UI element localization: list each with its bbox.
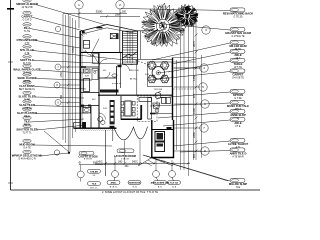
tub fixture marks [93, 69, 98, 72]
svg-text:R·L: R·L [84, 50, 89, 54]
dark dash on roofline [96, 27, 102, 29]
corner hatch top-left room [82, 32, 88, 37]
svg-text:OPTION: OPTION [233, 93, 243, 97]
svg-text:1450: 1450 [192, 75, 196, 81]
leader diagonal lower right short [146, 156, 173, 166]
leader line from callout R3 [152, 43, 230, 60]
dark bar below cabinet column [110, 126, 115, 128]
wall y105 left wing [81, 105, 99, 107]
right callout R1: RE30 MATCHING BACK [223, 8, 253, 18]
svg-text:STILER: STILER [90, 171, 98, 173]
roof eave top-left sloped [80, 25, 138, 32]
deck edge dashed y89 [173, 88, 196, 90]
left callout L3: PE,A [23, 23, 31, 33]
stair rails [126, 32, 128, 64]
wall left inner face [81, 34, 83, 127]
left callout L15: MUD ROOM [19, 139, 35, 149]
grid bubble right 3 [202, 26, 210, 34]
bottom callout STILER [88, 169, 101, 177]
svg-text:ALTRE TALROT: ALTRE TALROT [228, 142, 249, 146]
grid bubble top B [116, 1, 124, 9]
kitchen round fixture 2 [155, 109, 159, 113]
leader line from callout R4 [172, 52, 230, 64]
vertical line below plan x156 [155, 159, 157, 171]
svg-text:B TL TL: B TL TL [90, 187, 98, 189]
grid bubble right 6 [201, 100, 209, 108]
drawer unit dark stack [82, 122, 86, 128]
door arc hall y78 [104, 72, 110, 78]
porch step lines [145, 160, 155, 166]
dark wall segment y113.5 [150, 113, 156, 115]
right callout R12: ANNY TILE D [230, 148, 247, 158]
laundry door gap mark [167, 127, 172, 129]
leader line from callout L6 [33, 61, 133, 65]
vanity cabinet with basin [83, 107, 91, 113]
dark counter bar y90 [100, 90, 119, 93]
svg-text:2. SOME LAYOUT A LAYOUT OF TIL: 2. SOME LAYOUT A LAYOUT OF TILE T TL R T… [102, 191, 158, 194]
left keynote bubble c [54, 82, 60, 88]
wall top of bath block [81, 52, 123, 54]
svg-text:SLAT PLASTER: SLAT PLASTER [17, 111, 37, 115]
stipple below bottom wall [81, 130, 116, 131]
leader line from callout R1 [121, 9, 230, 11]
top dimension line [63, 13, 127, 15]
table leader + text below [158, 72, 170, 73]
svg-text:2875: 2875 [192, 41, 196, 47]
wall bath mid y67 [81, 66, 99, 68]
border tick lower-left [8, 182, 13, 184]
leader line from callout L12 [36, 112, 88, 115]
svg-text:4E T: 4E T [236, 58, 241, 60]
svg-text:1450: 1450 [60, 72, 63, 78]
callout pill CALFRT 20 SGM [79, 151, 98, 160]
left callout L16: WPWLP GECLOTHS ML [12, 150, 43, 160]
svg-text:1200: 1200 [192, 108, 196, 114]
right grid horizontal extension lines [174, 67, 201, 69]
svg-text:B TR GT: B TR GT [84, 159, 93, 161]
hanging curtain curves [114, 127, 148, 140]
wall x120.5 vertical [120, 53, 122, 88]
sheet bottom border [11, 189, 261, 191]
keynote circle bottom x172 [169, 171, 176, 178]
border tick top-left [7, 8, 14, 10]
leader line from callout L5 [33, 51, 126, 61]
bottom callout TILE [88, 182, 101, 190]
svg-text:WALL PAPER GLAZE: WALL PAPER GLAZE [13, 67, 40, 71]
deck outline right wing [173, 58, 201, 69]
svg-text:B LE TL: B LE TL [110, 186, 118, 188]
grid bubble right 4 [200, 64, 208, 72]
svg-text:W10 160: W10 160 [130, 70, 140, 72]
svg-text:800: 800 [192, 153, 196, 158]
porch diagonal [138, 158, 152, 167]
kitchen basin fixture [153, 103, 160, 109]
vertical line below plan x172 [171, 160, 173, 171]
svg-text:ANNY TILE D: ANNY TILE D [230, 152, 247, 156]
svg-text:950: 950 [60, 94, 63, 99]
svg-text:OTM ANTIHOME: OTM ANTIHOME [17, 38, 38, 42]
svg-text:TB 1200: TB 1200 [154, 89, 163, 91]
extra leader to junction [44, 131, 69, 152]
leader line from callout L13 [30, 119, 84, 122]
svg-text:WPWLP GECLOTHS ML: WPWLP GECLOTHS ML [12, 153, 43, 157]
marked X-box fixture [110, 34, 118, 39]
roof eave second line [80, 28, 136, 35]
bottom callout ANEL [107, 181, 120, 189]
kitchen sink circle [155, 93, 161, 99]
leader line from callout R2 [142, 22, 230, 30]
door header dark mark [118, 65, 122, 67]
svg-text:2450: 2450 [192, 132, 196, 138]
svg-text:G 1TW E TE: G 1TW E TE [232, 36, 245, 38]
kitchen counter right [148, 98, 152, 120]
left callout L12: SLAT PLASTER [17, 108, 37, 118]
keynote circle bottom x115 [112, 171, 119, 178]
left callout L4: OTM ANTIHOME [17, 35, 38, 45]
dashed diagonal below stairs [125, 56, 150, 66]
svg-text:GRASSY MAI HACM: GRASSY MAI HACM [225, 31, 252, 35]
leader line from callout L3 [30, 29, 80, 39]
grid bubble right 8 [201, 147, 209, 155]
svg-text:ANNE ELDP: ANNE ELDP [230, 113, 246, 117]
left callout L9: FLAT PAINT [19, 81, 36, 91]
stair break line [123, 52, 138, 59]
svg-text:MUD ROOM: MUD ROOM [19, 142, 35, 146]
bath sink oval [85, 70, 89, 72]
leader line from callout L1 [36, 5, 106, 26]
svg-text:RE30 MATCHING BACK: RE30 MATCHING BACK [223, 12, 253, 16]
room right wall x119.5 [119, 28, 121, 53]
svg-text:A TE: A TE [25, 52, 30, 55]
bottom dim line main [95, 162, 190, 164]
door arc wc [99, 113, 106, 120]
right callout R2: GRASSY MAI HACM [225, 27, 252, 37]
round table [152, 67, 164, 79]
wall y119 below table room [121, 118, 142, 120]
junction dot bottom of extension pair [68, 152, 70, 154]
svg-text:TL B: TL B [132, 186, 137, 188]
svg-text:B-R: B-R [85, 76, 89, 78]
vertical line below plan x140 [139, 140, 141, 164]
leader line from callout R10 [163, 120, 230, 126]
tall cabinet dark column [110, 100, 115, 124]
svg-text:TL TE: TL TE [24, 31, 31, 33]
right callout R6: CARPET [230, 69, 245, 79]
extension line from bubble A [78, 9, 80, 28]
top dimension tick 2 [119, 12, 122, 15]
wall hall bottom y78 [99, 77, 117, 79]
wall x121 table room left [120, 96, 122, 120]
svg-text:250: 250 [115, 13, 120, 16]
dark wall segment on bath wall [81, 66, 86, 68]
svg-text:CARPET: CARPET [232, 73, 243, 77]
svg-text:FT E: FT E [236, 126, 241, 128]
wall bath/hall vertical x99 [98, 53, 100, 128]
wall bottom of left wing [74, 127, 117, 129]
svg-text:1HD: 1HD [118, 162, 123, 164]
wall x91 vertical short [90, 106, 92, 128]
small ellipse fixture hall [112, 74, 117, 77]
leader line from callout L7 [39, 70, 83, 73]
bath closet tall rect [84, 79, 90, 92]
wall right of stairs x140.5 [140, 31, 142, 59]
svg-text:MILLRE SLMP: MILLRE SLMP [229, 182, 247, 186]
svg-text:MTL CLAD: MTL CLAD [20, 48, 34, 52]
wall right top x163 [162, 31, 164, 45]
dining left boundary line [136, 60, 138, 96]
door arc hall upper [99, 59, 107, 67]
svg-text:SOFT TILE: SOFT TILE [20, 58, 34, 62]
svg-text:3500: 3500 [96, 10, 103, 14]
wall wc y92.5 [81, 92, 99, 94]
svg-text:W T-TE: W T-TE [234, 67, 242, 69]
svg-text:MUNU FUN TALE: MUNU FUN TALE [227, 104, 249, 108]
svg-text:SMURF ALMGER: SMURF ALMGER [16, 2, 38, 6]
washer dark stack [155, 132, 165, 152]
svg-text:ANEL: ANEL [111, 182, 118, 185]
border tick mid-left [8, 61, 13, 63]
extension line cluster left of plan [62, 14, 64, 140]
long leader bottom right [143, 155, 228, 181]
svg-text:TILE: TILE [92, 184, 97, 186]
right vertical dimension ticks [195, 34, 198, 37]
vertical line below plan x124.5 [124, 141, 126, 164]
svg-text:24DC: 24DC [132, 162, 138, 164]
grid bubble top A [75, 1, 83, 9]
svg-text:G TE 3D: G TE 3D [234, 16, 243, 18]
leader line from callout R12 [180, 151, 230, 153]
bottom callout TLE GA [168, 181, 181, 189]
svg-text:A TE WA R: A TE WA R [232, 155, 244, 158]
svg-text:FLAT PAINT: FLAT PAINT [19, 84, 35, 88]
keynote circle bottom x80.8 [77, 171, 84, 178]
left keynote connector lines [61, 66, 80, 68]
toilet circles mid room [98, 117, 103, 122]
left callout L13: TILE [23, 116, 31, 126]
svg-text:SLAB TILER: SLAB TILER [19, 103, 35, 107]
door swing upper-left room [90, 39, 99, 56]
vertical below cabinet [112, 128, 114, 141]
svg-text:12 TE 2TR: 12 TE 2TR [21, 7, 32, 9]
bottom callout ANTILAYERE GTA [151, 181, 170, 189]
door jambs dark y105 [81, 105, 84, 107]
svg-text:G A-TE: G A-TE [23, 146, 31, 149]
svg-text:HASHIGHE: HASHIGHE [129, 182, 141, 185]
right callout R11: ALTRE TALROT [228, 138, 249, 148]
kitchen counter top [139, 98, 152, 102]
svg-text:G C-R D: G C-R D [23, 19, 32, 21]
wall x116.5 vertical [116, 66, 118, 95]
left callout L10: SLATE TILER [18, 91, 35, 101]
leader line from callout L11 [34, 106, 86, 108]
dark wall bar x141 kitchen [140, 105, 142, 120]
wall dining right x172.5 [172, 58, 174, 121]
svg-text:ANTILAYERE GTA: ANTILAYERE GTA [151, 182, 170, 185]
leader line from callout R8 [150, 103, 230, 106]
round table rug square [148, 62, 173, 87]
svg-text:TL B: TL B [172, 186, 177, 188]
svg-text:500: 500 [122, 11, 127, 14]
svg-text:1HXC: 1HXC [96, 162, 102, 164]
extension line from bubble B [119, 9, 121, 31]
svg-text:2 TR GT: 2 TR GT [121, 159, 130, 161]
svg-text:PE,A: PE,A [24, 26, 30, 30]
vertical line below plan x115 [114, 156, 116, 171]
svg-text:TILE: TILE [24, 119, 30, 123]
left keynote bubble e [54, 150, 59, 155]
wall bath mid y80 [81, 79, 92, 81]
leader line from callout L15 [33, 145, 112, 146]
staircase block [123, 31, 173, 95]
right callout R9: ANNE ELDP [230, 109, 246, 119]
connector circle to pill lines bottom [80, 178, 82, 182]
appliance rects right of kitchen [162, 97, 166, 103]
right callout R7: OPTION [230, 89, 245, 99]
bath sink counter [84, 69, 91, 73]
svg-text:TLE GA: TLE GA [170, 182, 178, 185]
left callout L11: SLAB TILER [19, 100, 35, 110]
left keynote bubble a [55, 26, 60, 31]
leader line from callout R7 [158, 92, 230, 98]
svg-text:2150: 2150 [72, 47, 75, 53]
wall top right section [137, 30, 163, 32]
leader line from callout L10 [35, 97, 84, 98]
laundry room walls [152, 120, 174, 158]
leader line from callout L2 [31, 17, 84, 31]
left cluster ticks [67, 66, 69, 68]
svg-text:ARLE: ARLE [234, 121, 242, 125]
dining top interior line [138, 59, 173, 61]
tree T2 small [175, 4, 198, 28]
svg-text:TARLE: TARLE [234, 62, 243, 66]
sheet left border [10, 0, 12, 190]
right callout R10: ARLE [230, 117, 245, 127]
grid bubble right 7 [200, 124, 208, 132]
rect table chairs [121, 101, 124, 105]
dashed short line hall [112, 83, 121, 85]
leader line from callout R11 [173, 141, 230, 146]
svg-text:G T SE: G T SE [234, 98, 242, 100]
tree T1 large [141, 3, 185, 47]
svg-text:SHUTTER TILER: SHUTTER TILER [16, 127, 37, 131]
grid bubble right 5 [199, 83, 207, 91]
right extension line cluster [176, 60, 178, 150]
svg-text:CARPET: CARPET [21, 14, 32, 18]
svg-text:BE P SE RE FL: BE P SE RE FL [19, 89, 36, 91]
svg-text:TLE: TLE [236, 187, 241, 189]
leader line from callout L9 [34, 87, 86, 90]
right callout R13: MILLRE SLMP [229, 178, 247, 188]
svg-text:P-R: P-R [103, 108, 107, 110]
svg-text:ARLE: ARLE [234, 53, 242, 57]
right callout R4: ARLE [230, 49, 245, 59]
rect dining table [125, 101, 131, 116]
top dimension tick 1 [78, 12, 81, 15]
left callout L5: MTL CLAD [20, 45, 34, 55]
svg-text:WC: WC [92, 99, 96, 101]
bottom callout HASHIGHE [128, 181, 141, 189]
leader line from callout R13 [143, 155, 230, 181]
svg-text:D-R: D-R [145, 74, 149, 76]
right callout R8: MUNU FUN TALE [227, 100, 249, 110]
leader line from callout L16 [39, 153, 69, 156]
left keynote bubble d [55, 100, 61, 106]
left keynote bubble b [55, 64, 61, 70]
secondary dim line 250 [100, 15, 140, 17]
svg-text:975: 975 [192, 93, 196, 98]
svg-text:MILLER BLIM: MILLER BLIM [229, 44, 247, 48]
keynote circle bottom x156 [153, 171, 160, 178]
leader line from callout R9 [158, 112, 230, 118]
vertical line x80.8 bottom [80, 165, 82, 171]
callout pill CALWRT 2D SGM [114, 149, 136, 161]
bath tub rect [92, 69, 98, 80]
closet rect upper-left room [84, 40, 90, 48]
leader line from callout R6 [150, 72, 230, 81]
basin oval [84, 109, 89, 112]
right callout R5: TARLE [230, 58, 245, 68]
svg-text:TL FT TL: TL FT TL [22, 132, 32, 134]
left callout L1: SMURF ALMGER [16, 0, 38, 9]
left callout L6: SOFT TILE [20, 55, 34, 65]
door arc below stairs [123, 64, 130, 71]
left callout L7: WALL PAPER GLAZE [13, 64, 40, 74]
wall main y95 [98, 94, 173, 96]
kitchen dashed outline [137, 96, 157, 122]
left callout L8: SHOE CLOSET [17, 73, 37, 83]
leader line from callout L4 [36, 41, 80, 49]
left callout L2: CARPET [21, 11, 32, 21]
svg-text:G 4X4+4DG C-R: G 4X4+4DG C-R [18, 158, 36, 160]
svg-text:SHOE CLOSET: SHOE CLOSET [17, 76, 37, 80]
bottom dim line left 500 [79, 164, 103, 166]
leader line from callout R5 [168, 61, 230, 72]
vertical line below plan x105.7 [105, 130, 107, 176]
round table daisy chairs [148, 62, 156, 70]
bath shower rect [93, 54, 99, 64]
leader line from callout L14 [36, 125, 86, 130]
svg-text:SLATE TILER: SLATE TILER [18, 94, 35, 98]
wall left exterior [79, 31, 81, 129]
svg-text:AT 910: AT 910 [130, 78, 138, 81]
right callout R3: MILLER BLIM [229, 40, 247, 50]
leader line from callout L8 [35, 79, 84, 81]
left callout L14: SHUTTER TILER [16, 124, 37, 134]
svg-text:G+A SE TE: G+A SE TE [232, 76, 244, 79]
